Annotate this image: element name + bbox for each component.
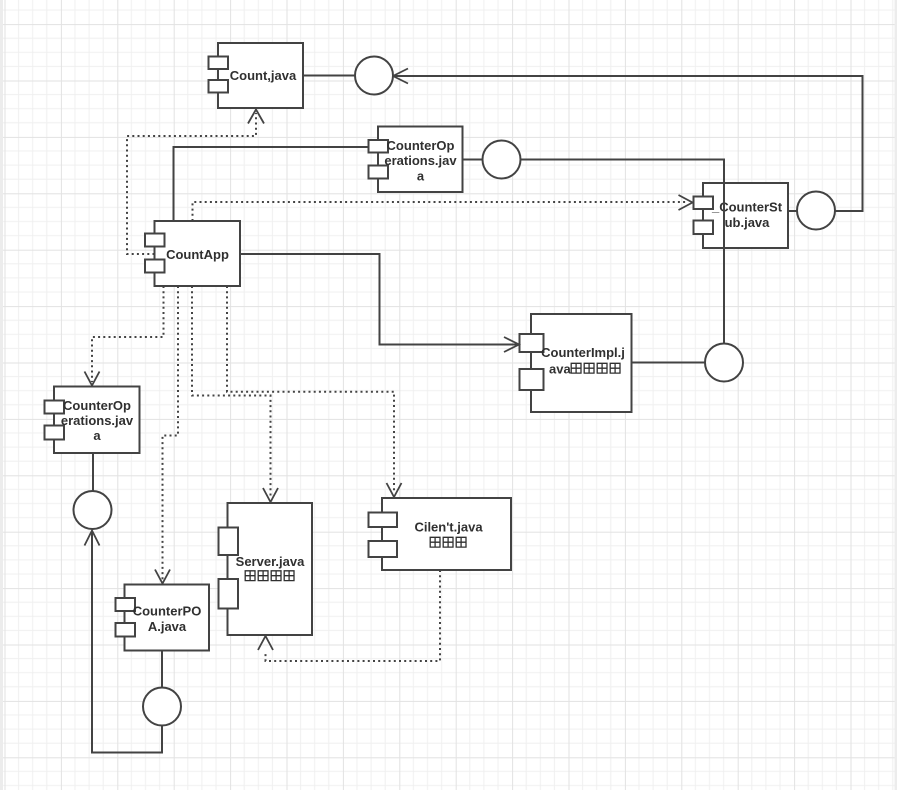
arrowhead into CounterImpl pointing right [504,337,519,352]
svg-text:erations.jav: erations.jav [384,153,457,168]
component CounterOperations.java (left) [45,387,140,454]
interface circle E (CounterOperations left) [74,491,112,529]
wire CounterPOA bottom to circle F [161,651,163,688]
svg-text:CounterOp: CounterOp [387,138,455,153]
arrowhead into CounterStub tab pointing right [679,195,693,210]
wire CountApp top to CounterOperations(top) tab [174,147,369,221]
wire CounterOperations(top) to circle B [463,159,484,161]
dashed dependency CountApp to Count.java [127,113,256,254]
interface circle D (CounterImpl) [705,344,743,382]
arrowhead into CounterPOA top pointing down [155,570,170,584]
component CounterOperations.java (top) [369,127,463,193]
wire circle D to CounterImpl right edge [632,362,707,364]
interface circle B (CounterOperations top) [483,141,521,179]
dashed dependency CountApp to Cilen't.java [227,286,394,493]
component Cilen't.java [369,498,512,570]
label CJK 服务器端 [245,571,294,581]
wire CountApp right to CounterImpl tab (solid arrow) [240,254,517,345]
wire circle F bottom around to circle E bottom (solid arrow up) [92,531,162,753]
svg-text:CountApp: CountApp [166,247,229,262]
svg-text:ava: ava [549,362,571,377]
wire CounterStub right edge to circle C [788,210,798,212]
component CounterImpl.java [520,314,632,412]
svg-text:CounterOp: CounterOp [63,398,131,413]
svg-text:a: a [417,169,425,184]
svg-text:Server.java: Server.java [236,554,305,569]
component _CounterStub.java [694,183,789,248]
label CJK 客户端 [430,537,466,547]
arrowhead into CounterOperations(left) top pointing down [85,372,100,386]
component Count.java [209,43,304,108]
wire CounterOperations(left) bottom to circle E [92,453,94,491]
arrowhead into Server.java bottom pointing up [258,636,273,650]
svg-text:CounterPO: CounterPO [133,604,202,619]
svg-text:ub.java: ub.java [725,215,771,230]
wire Count.java to interface circle A [303,75,356,77]
svg-text:a: a [93,428,101,443]
wire long return line from CounterStub circle to circle A (with corner top-right) [393,76,863,211]
arrowhead into circle E pointing up [85,531,100,546]
component Server.java [219,503,313,635]
dashed dependency Cilen't.java to Server.java [266,570,441,661]
interface circle A (Count.java) [355,57,393,95]
arrowhead at circle A pointing left [393,69,408,84]
arrowhead into Cilen't.java top pointing down [387,483,402,497]
dashed dependency CountApp to Server.java [192,286,271,498]
arrowhead into Count.java bottom pointing up [248,110,264,124]
svg-text:CounterImpl.j: CounterImpl.j [541,345,625,360]
svg-text:Cilen't.java: Cilen't.java [414,520,483,535]
svg-text:A.java: A.java [148,619,187,634]
dashed dependency CountApp to CounterOperations(left) [92,286,164,382]
dashed dependency CountApp to CounterStub [193,202,689,221]
svg-text:Count,java: Count,java [230,68,297,83]
label CJK 对象实现 [571,363,620,373]
component CounterPOA.java [116,585,210,651]
interface circle C (CounterStub) [797,192,835,230]
arrowhead into Server.java top pointing down [263,488,278,502]
svg-text:erations.jav: erations.jav [61,413,134,428]
dashed dependency CountApp to CounterPOA [163,286,179,580]
interface circle F (CounterPOA) [143,688,181,726]
wire circle B to circle D (through CounterStub box) [520,160,725,345]
component CountApp [145,221,240,286]
svg-text:_CounterSt: _CounterSt [711,200,783,215]
